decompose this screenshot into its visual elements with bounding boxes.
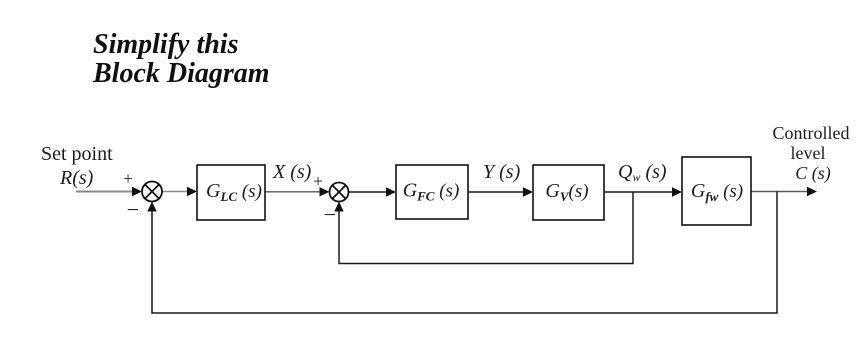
svg-text:Simplify this: Simplify this xyxy=(93,29,239,60)
svg-text:−: − xyxy=(127,197,139,222)
svg-text:Qw (s): Qw (s) xyxy=(618,161,667,184)
svg-text:+: + xyxy=(123,169,133,188)
svg-text:C (s): C (s) xyxy=(795,163,831,184)
svg-text:Set point: Set point xyxy=(41,143,113,165)
svg-text:level: level xyxy=(791,143,826,163)
svg-text:R(s): R(s) xyxy=(59,167,94,189)
svg-text:−: − xyxy=(324,202,336,227)
svg-text:Y (s): Y (s) xyxy=(483,161,521,183)
svg-text:+: + xyxy=(313,172,323,191)
svg-text:Block Diagram: Block Diagram xyxy=(92,58,270,89)
svg-text:Controlled: Controlled xyxy=(773,123,850,143)
svg-text:X (s): X (s) xyxy=(272,161,312,183)
